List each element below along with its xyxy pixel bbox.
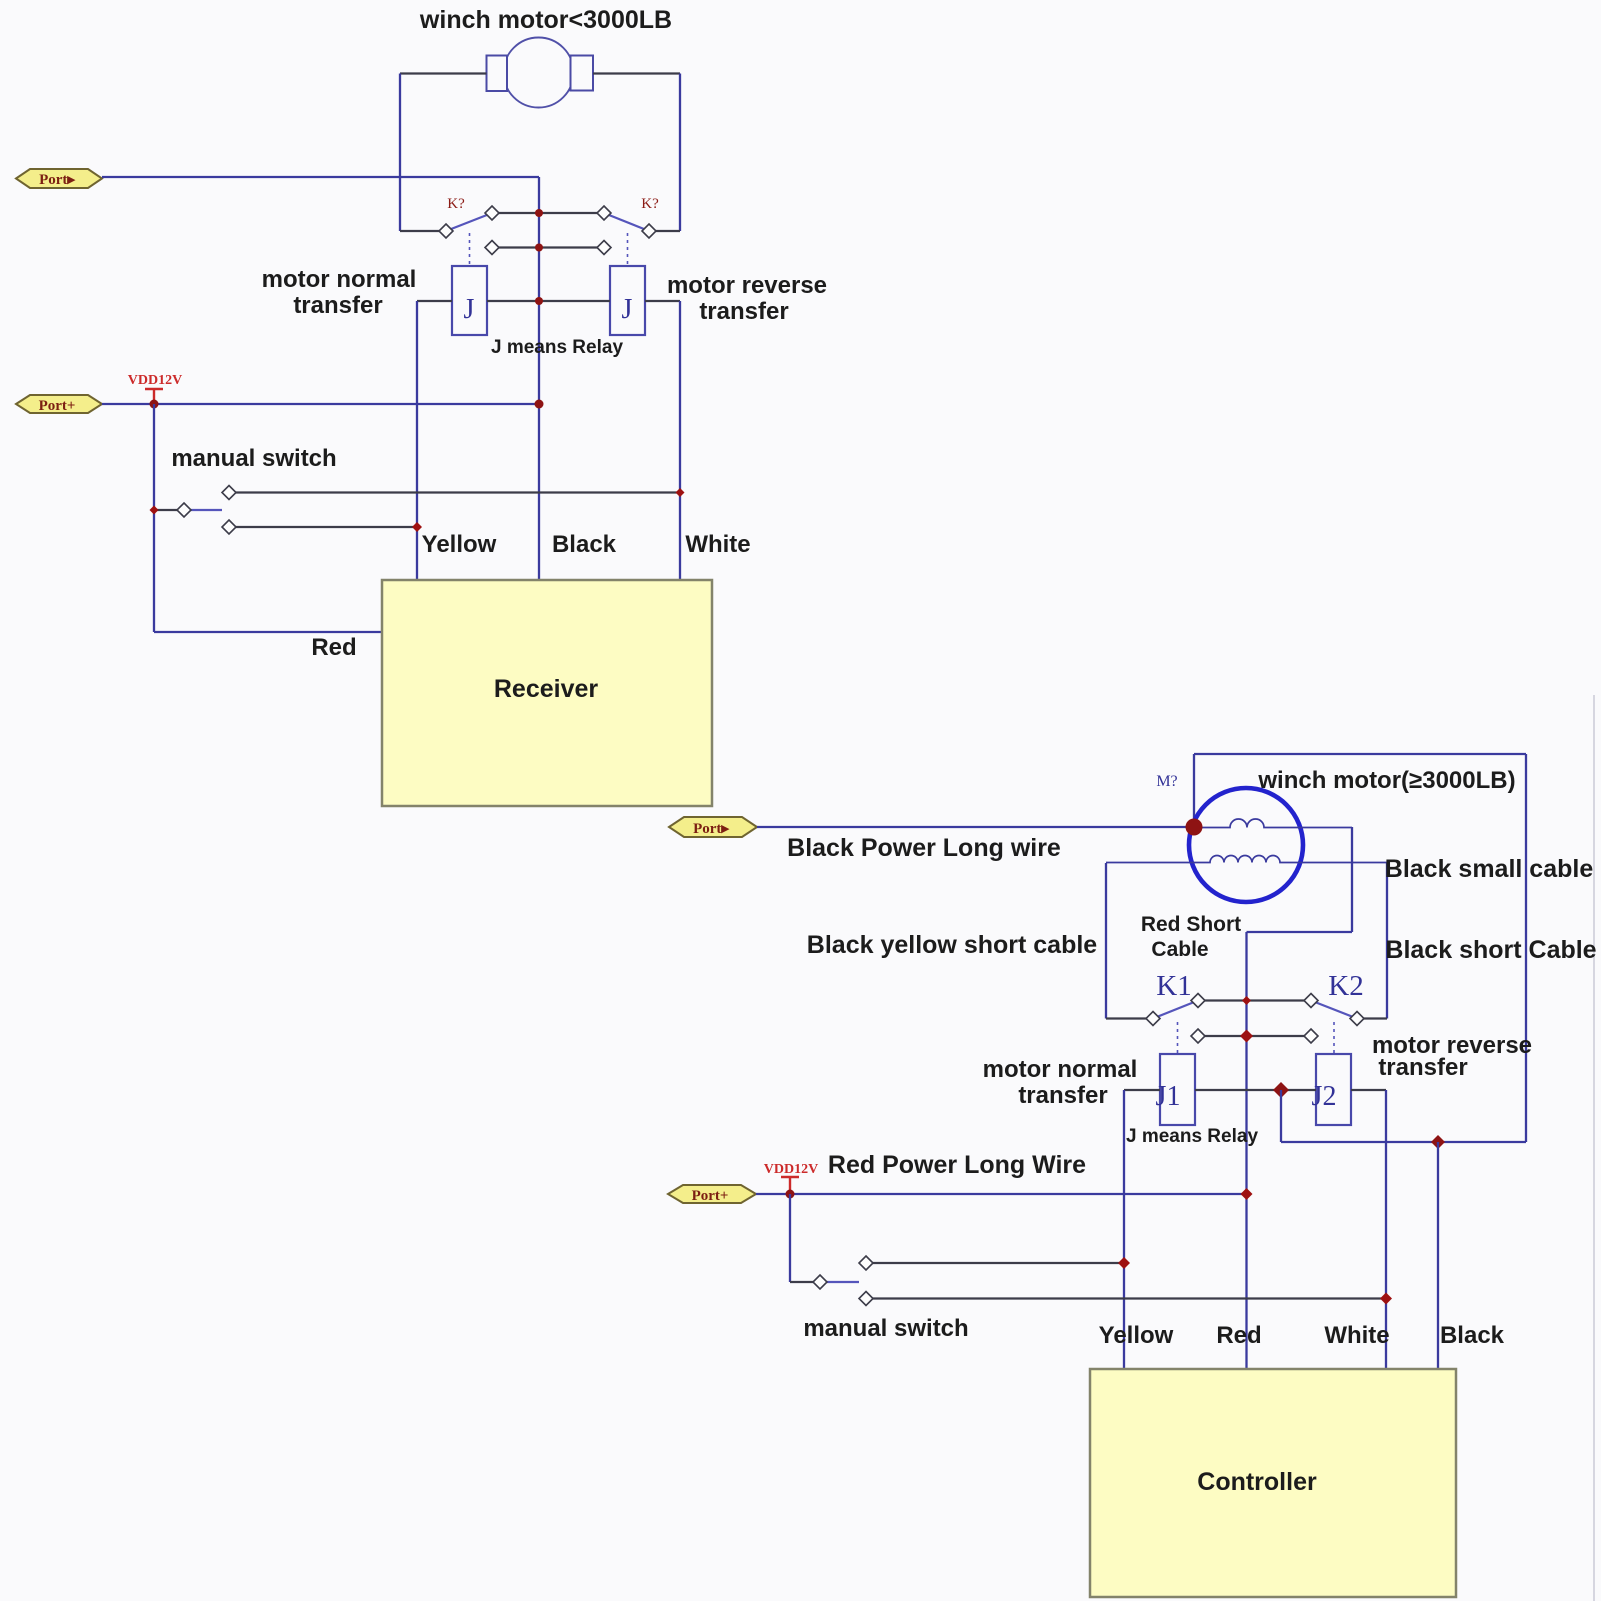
motor M left brush [487, 56, 508, 92]
wire black vertical (to Receiver) [538, 177, 540, 580]
svg-text:Black: Black [552, 531, 617, 558]
svg-text:winch motor<3000LB: winch motor<3000LB [419, 6, 672, 34]
port Port2 [16, 395, 102, 413]
wire horizontal 1142 [1281, 1141, 1526, 1143]
svg-text:J1: J1 [1156, 1081, 1181, 1112]
wire white vertical to Controller [1385, 1090, 1387, 1369]
relay J1 box [1160, 1054, 1195, 1125]
wire step vertical [1351, 827, 1353, 932]
junction node msw common [150, 506, 159, 515]
contact diamond [177, 503, 191, 517]
svg-text:Port▸: Port▸ [693, 821, 730, 837]
wire msw common [154, 509, 184, 511]
contact diamond [485, 241, 499, 255]
junction node row1 [535, 209, 543, 217]
svg-text:K2: K2 [1328, 970, 1363, 1002]
contact diamond [1304, 994, 1318, 1008]
junction node white-msw [676, 488, 685, 497]
wire relay row mid [487, 300, 610, 302]
wire yellow vertical [416, 301, 418, 580]
wire K1 outer contact [1106, 1017, 1148, 1019]
wire left vertical (black yellow short cable) [1105, 863, 1107, 1019]
wire port1 to node [102, 176, 539, 178]
contact diamond [222, 520, 236, 534]
wire relay row right [1351, 1089, 1386, 1091]
contact diamond [1146, 1012, 1160, 1026]
junction node relay row [535, 297, 543, 305]
svg-text:Red: Red [311, 634, 356, 661]
contact diamond [859, 1256, 873, 1270]
junction node K row1 [1242, 996, 1251, 1005]
svg-text:transfer: transfer [293, 292, 382, 319]
Receiver box [382, 580, 712, 806]
wire red center vertical [1245, 932, 1247, 1369]
wire relay row right [645, 300, 680, 302]
contact diamond [439, 224, 453, 238]
junction node port3-motor [1186, 819, 1203, 836]
junction node K row2 [1240, 1030, 1253, 1043]
wire switch row1 [492, 212, 604, 214]
contact diamond [859, 1292, 873, 1306]
svg-text:Yellow: Yellow [1099, 1322, 1174, 1349]
wire motor left vertical [399, 74, 401, 232]
svg-text:Black Power Long wire: Black Power Long wire [787, 834, 1061, 862]
svg-text:White: White [1324, 1322, 1389, 1349]
svg-text:Black small cable: Black small cable [1385, 855, 1594, 883]
contact diamond [597, 206, 611, 220]
wire motor top vertical [1193, 754, 1195, 827]
svg-text:motor normal: motor normal [983, 1056, 1138, 1083]
junction node yellow-msw [412, 522, 422, 532]
svg-text:Red Power Long Wire: Red Power Long Wire [828, 1151, 1086, 1179]
port Port4 [668, 1185, 756, 1203]
svg-text:J2: J2 [1312, 1081, 1337, 1112]
switch K1 blade [1153, 1001, 1198, 1019]
wire red vertical left [153, 404, 155, 632]
svg-text:K?: K? [447, 196, 465, 212]
svg-text:VDD12V: VDD12V [764, 1162, 818, 1177]
svg-text:K?: K? [641, 196, 659, 212]
svg-text:transfer: transfer [699, 298, 788, 325]
wire msw lower contact [229, 526, 417, 528]
junction node yellow-msw [1118, 1257, 1130, 1269]
wire top horizontal [1194, 753, 1526, 755]
wire motor right vertical [679, 74, 681, 232]
junction node black drop [1431, 1135, 1445, 1149]
contact diamond [222, 486, 236, 500]
winding lower coil [1106, 856, 1387, 863]
contact diamond [1191, 994, 1205, 1008]
svg-text:Port+: Port+ [692, 1188, 729, 1204]
dotted link to relay J1 [1177, 1022, 1179, 1054]
svg-text:VDD12V: VDD12V [128, 373, 182, 388]
wire msw upper contact [872, 1262, 1124, 1264]
svg-text:motor reverse: motor reverse [667, 272, 827, 299]
wire motor right horizontal [593, 72, 680, 74]
wire right contact [649, 230, 680, 232]
svg-text:M?: M? [1156, 773, 1177, 790]
switch K blade left [446, 213, 492, 231]
svg-text:Controller: Controller [1197, 1468, 1317, 1496]
svg-text:Port+: Port+ [39, 398, 76, 414]
Controller box [1090, 1369, 1456, 1597]
wire K row2 [1198, 1035, 1311, 1037]
wire port3 to motor [757, 826, 1194, 828]
wire msw vertical [789, 1194, 791, 1282]
svg-text:transfer: transfer [1378, 1054, 1467, 1081]
svg-text:White: White [685, 531, 750, 558]
relay J2 box [610, 266, 645, 335]
svg-text:K1: K1 [1156, 970, 1191, 1002]
wire relay row mid [1195, 1089, 1316, 1091]
svg-text:J means Relay: J means Relay [491, 337, 623, 358]
junction node port4-red [1241, 1188, 1253, 1200]
wire black small cable vertical [1386, 863, 1388, 1019]
winding upper coil [1194, 819, 1352, 828]
svg-text:Red: Red [1216, 1322, 1261, 1349]
port Port3 [669, 817, 757, 837]
junction node row2 [535, 244, 543, 252]
wire motor left horizontal [400, 72, 487, 74]
svg-text:Cable: Cable [1151, 938, 1208, 961]
switch msw blade [190, 509, 222, 511]
svg-text:winch motor(≥3000LB): winch motor(≥3000LB) [1257, 767, 1515, 794]
relay J2 box [1316, 1054, 1351, 1125]
svg-text:Black yellow short cable: Black yellow short cable [807, 931, 1097, 959]
wire yellow vertical to Controller [1123, 1090, 1125, 1369]
svg-text:Port▸: Port▸ [39, 172, 76, 188]
wire K2 outer contact [1362, 1017, 1387, 1019]
wire black vertical to Controller [1437, 1142, 1439, 1369]
motor M1 circle (bottom) [1189, 788, 1303, 902]
wire port4 to red node [756, 1193, 1247, 1195]
dotted link to relay J left [469, 233, 471, 266]
switch K blade right [604, 213, 649, 231]
svg-text:Black: Black [1440, 1322, 1505, 1349]
switch msw blade (bottom) [827, 1281, 859, 1283]
wire step horizontal [1247, 931, 1353, 933]
relay J1 box [452, 266, 487, 335]
svg-text:motor normal: motor normal [262, 266, 417, 293]
contact diamond [485, 206, 499, 220]
sheet edge line [1593, 695, 1595, 1601]
junction node relay row [1273, 1082, 1289, 1098]
contact diamond [1304, 1029, 1318, 1043]
wire K row1 [1198, 999, 1311, 1001]
junction node white-msw [1380, 1293, 1392, 1305]
svg-text:Receiver: Receiver [494, 675, 599, 703]
switch K2 blade [1311, 1001, 1357, 1019]
junction node VDD top [150, 400, 159, 409]
motor M (top) circle [504, 38, 574, 108]
wire left contact [400, 230, 446, 232]
wire red horizontal to Receiver [154, 631, 383, 633]
wire port2 to node [102, 403, 539, 405]
wire relay row left [1124, 1089, 1160, 1091]
svg-text:J means Relay: J means Relay [1126, 1126, 1258, 1147]
contact diamond [1191, 1029, 1205, 1043]
junction node VDD bottom [786, 1190, 795, 1199]
svg-text:manual switch: manual switch [803, 1315, 968, 1342]
contact diamond [813, 1275, 827, 1289]
port Port1 [16, 169, 102, 188]
svg-text:J: J [464, 294, 475, 325]
wire drop from relay row [1280, 1090, 1282, 1142]
wire switch row2 [492, 246, 604, 248]
motor M right brush [571, 56, 594, 91]
svg-text:manual switch: manual switch [171, 445, 336, 472]
dotted link to relay J2 [1333, 1022, 1335, 1054]
contact diamond [642, 224, 656, 238]
svg-text:J: J [622, 294, 633, 325]
svg-text:Red Short: Red Short [1141, 913, 1241, 936]
svg-text:Yellow: Yellow [422, 531, 497, 558]
svg-text:transfer: transfer [1018, 1082, 1107, 1109]
wire relay row left [417, 300, 452, 302]
dotted link to relay J right [627, 233, 629, 266]
wire msw lower contact [872, 1297, 1386, 1299]
junction node port2-black [535, 400, 544, 409]
contact diamond [1350, 1012, 1364, 1026]
contact diamond [597, 241, 611, 255]
wire white vertical [679, 301, 681, 580]
svg-text:Black short Cable: Black short Cable [1385, 936, 1596, 964]
wire long right vertical [1525, 754, 1527, 1142]
wire msw upper contact [229, 491, 680, 493]
wire msw common [790, 1281, 814, 1283]
